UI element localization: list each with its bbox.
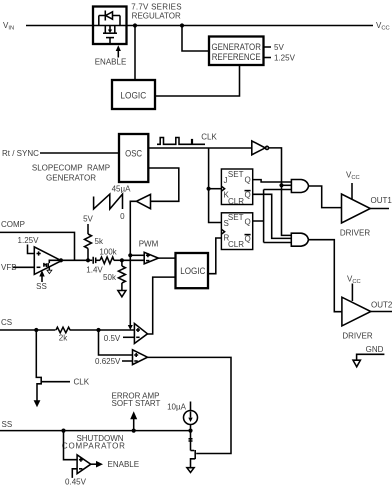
wire 2k to comparator — [70, 329, 135, 331]
wire CLK down to flip-flops — [209, 148, 222, 223]
node CLK branch — [207, 187, 211, 191]
logic box U8 — [176, 253, 209, 288]
and gate A1 — [291, 180, 308, 193]
wire junction to logic1 — [134, 26, 136, 81]
svg-text:SS: SS — [36, 282, 47, 291]
svg-text:OUT1: OUT1 — [371, 196, 392, 205]
node SS at current source — [188, 429, 192, 433]
wire SS to shutdown comparator plus — [64, 431, 78, 460]
resistor R4 2k — [56, 327, 70, 333]
label 0.5V — [104, 334, 135, 343]
svg-text:ENABLE: ENABLE — [108, 460, 140, 469]
svg-text:10µA: 10µA — [167, 403, 187, 412]
pin RT/SYNC label — [2, 149, 39, 158]
svg-text:2k: 2k — [59, 334, 68, 343]
svg-text:7.7V SERIES: 7.7V SERIES — [131, 3, 181, 12]
svg-text:50k: 50k — [103, 273, 117, 282]
svg-text:GENERATOR: GENERATOR — [46, 174, 96, 183]
driver 1 triangle — [342, 194, 371, 223]
wire JK Qbar to AND2 — [253, 194, 292, 238]
svg-text:100k: 100k — [99, 248, 117, 257]
wire CLK tap — [41, 381, 70, 383]
wire COMP — [0, 232, 75, 260]
wire OSC ramp output — [148, 168, 179, 201]
comparator 0.5V U11 — [134, 324, 147, 344]
wire VCC stub driver1 — [351, 183, 353, 199]
regulator box U1 — [93, 7, 127, 45]
wire OUT2 — [371, 311, 392, 313]
wire VCC stub driver2 — [351, 284, 353, 302]
wire JK Q to AND1 — [253, 180, 292, 182]
wire logic2 to SR reset — [208, 238, 221, 274]
node SS to soft start arrow — [132, 429, 136, 433]
logic box U2 — [112, 80, 155, 109]
node CS branch to 0.625 comparator — [96, 328, 100, 332]
svg-text:1.25V: 1.25V — [18, 236, 40, 245]
svg-text:5V: 5V — [274, 43, 284, 52]
wire 0.45V to shutdown comparator minus — [72, 469, 77, 478]
wire RT/SYNC to OSC — [40, 152, 119, 154]
node CS branch down — [34, 328, 38, 332]
battery 1.4V offset — [88, 257, 100, 264]
label SLOPECOMP RAMP GENERATOR — [32, 164, 110, 183]
diode D1 inside regulator — [99, 11, 120, 26]
inverter U4 — [252, 141, 269, 155]
svg-text:CS: CS — [1, 318, 12, 327]
svg-text:OSC: OSC — [125, 149, 142, 160]
svg-text:GND: GND — [366, 345, 384, 354]
wire AND2 to driver2 — [308, 240, 342, 312]
svg-text:0.5V: 0.5V — [104, 334, 121, 343]
svg-text:COMP: COMP — [1, 220, 25, 229]
wire VFB to error amp — [13, 266, 34, 268]
wire CS to 0.625V comparator — [99, 330, 133, 355]
svg-text:5V: 5V — [83, 215, 93, 224]
svg-text:Q: Q — [245, 217, 251, 226]
label SHUTDOWN COMPARATOR — [62, 434, 125, 450]
svg-text:LOGIC: LOGIC — [120, 91, 146, 102]
svg-text:Q: Q — [245, 176, 251, 185]
svg-text:OUT2: OUT2 — [371, 301, 392, 310]
label VCC driver2 — [347, 275, 361, 286]
label ERROR AMP SOFT START — [111, 391, 160, 408]
wire PWM to logic2 — [158, 257, 175, 259]
svg-text:PWM: PWM — [139, 240, 159, 249]
generator reference box U3 — [209, 37, 264, 66]
comparator PWM U7 — [144, 252, 158, 263]
wire VIN to regulator — [26, 25, 93, 27]
svg-text:0: 0 — [120, 212, 125, 221]
wire OUT1 — [370, 208, 389, 210]
wire 1.25V to error amp — [28, 245, 35, 254]
label VCC driver1 — [346, 171, 360, 182]
arrow CS discharge down — [34, 400, 41, 407]
svg-text:Q: Q — [245, 191, 251, 200]
svg-text:SOFT START: SOFT START — [112, 399, 161, 408]
node junction at x182 — [180, 23, 184, 27]
svg-text:CLR: CLR — [228, 240, 244, 249]
svg-text:Rt / SYNC: Rt / SYNC — [2, 149, 39, 158]
wire CS — [0, 329, 56, 331]
wire 0.625V comparator to shutdown transistor gate — [148, 357, 232, 453]
sawtooth waveform — [94, 194, 123, 209]
svg-text:COMPARATOR: COMPARATOR — [62, 441, 125, 450]
svg-text:REGULATOR: REGULATOR — [132, 11, 181, 20]
pass transistor Q1 inside regulator — [103, 26, 117, 45]
wire CS down with CLK tap — [36, 330, 41, 401]
svg-text:0.625V: 0.625V — [95, 357, 121, 366]
svg-text:ENABLE: ENABLE — [95, 58, 127, 67]
svg-text:S: S — [224, 219, 229, 228]
ENABLE arrow into regulator — [116, 45, 121, 57]
svg-text:CLR: CLR — [228, 197, 244, 206]
svg-text:5k: 5k — [95, 237, 104, 246]
driver 2 triangle — [342, 297, 371, 326]
label 0.625V — [95, 357, 132, 366]
resistor R1 5k — [85, 224, 92, 260]
and gate A2 — [291, 233, 308, 246]
pin VIN label — [3, 21, 14, 32]
label 7.7V SERIES REGULATOR — [131, 3, 181, 21]
arrow ENABLE output — [91, 461, 103, 468]
svg-text:REFERENCE: REFERENCE — [212, 52, 261, 63]
wire to PWM minus — [122, 259, 144, 261]
node error amp output — [59, 258, 63, 262]
wire junction to generator reference — [182, 26, 209, 52]
pin 5V of reference — [264, 43, 285, 52]
svg-text:LOGIC: LOGIC — [180, 266, 205, 277]
svg-text:45µA: 45µA — [112, 185, 132, 194]
pin VCC label top right — [376, 21, 390, 32]
resistor R2 100k — [100, 257, 122, 264]
svg-text:1.25V: 1.25V — [274, 54, 296, 63]
op-amp error amplifier U6 — [34, 247, 61, 275]
wire SR Q to both AND gates — [253, 190, 292, 243]
ground below 50k — [118, 291, 126, 297]
pin 1.25V of reference — [264, 54, 296, 63]
node 5k bottom — [86, 258, 90, 262]
svg-text:CLK: CLK — [74, 378, 90, 387]
flip-flop JK U9 — [221, 169, 252, 206]
arrow soft start up — [130, 411, 137, 430]
wire inverter output down to AND gates — [269, 148, 292, 236]
switch ticks below SS node — [189, 431, 193, 451]
svg-text:CLK: CLK — [201, 133, 217, 142]
svg-text:Q: Q — [245, 235, 251, 244]
svg-text:DRIVER: DRIVER — [342, 331, 372, 340]
svg-text:SS: SS — [2, 420, 13, 429]
current source I1 10uA — [184, 402, 198, 431]
label GENERATOR REFERENCE — [211, 42, 261, 63]
node CLKbar to AND1 — [279, 183, 283, 187]
comparator 0.625V U12 — [133, 350, 148, 365]
wire CLK to JK clock input — [209, 188, 222, 190]
svg-text:SET: SET — [228, 213, 244, 222]
node 100k 50k junction — [120, 258, 124, 262]
transistor Q2 shutdown pulldown — [191, 450, 196, 468]
wire regulator to VCC — [127, 25, 374, 27]
wire OSC clock output — [148, 147, 252, 149]
wire AND1 to driver1 — [308, 186, 342, 208]
resistor R3 50k — [118, 260, 125, 290]
ground below Q2 — [187, 468, 194, 473]
clock pulse waveform — [157, 138, 205, 145]
wire reference to logic1 — [155, 65, 240, 96]
ramp buffer U5 — [136, 194, 150, 208]
svg-text:SLOPECOMP RAMP: SLOPECOMP RAMP — [32, 164, 110, 173]
flip-flop SR U10 — [221, 213, 252, 250]
svg-text:J: J — [224, 176, 228, 185]
svg-text:SET: SET — [228, 170, 244, 179]
wire ramp to PWM plus input — [130, 254, 144, 256]
node SS to shutdown comparator — [61, 429, 65, 433]
wire through regulator — [93, 25, 127, 27]
wire CLKbar branch to AND1 — [282, 184, 292, 186]
node junction at x135 — [133, 23, 137, 27]
svg-text:0.45V: 0.45V — [65, 478, 87, 486]
wire 0.5V comparator output to logic2 — [148, 277, 176, 334]
SS arrow into error amp — [39, 270, 44, 282]
wire SS — [0, 430, 191, 432]
oscillator box OSC — [119, 134, 148, 182]
svg-text:1.4V: 1.4V — [86, 266, 103, 275]
comparator shutdown U13 — [77, 455, 91, 474]
ground symbol GND pin — [353, 354, 384, 367]
wire ramp to CS summing arrow — [128, 201, 137, 330]
wire error amp output — [61, 259, 88, 261]
node ramp to PWM — [128, 253, 132, 257]
soft start clamp transistor inside error amp — [44, 260, 61, 273]
svg-text:DRIVER: DRIVER — [340, 228, 370, 237]
